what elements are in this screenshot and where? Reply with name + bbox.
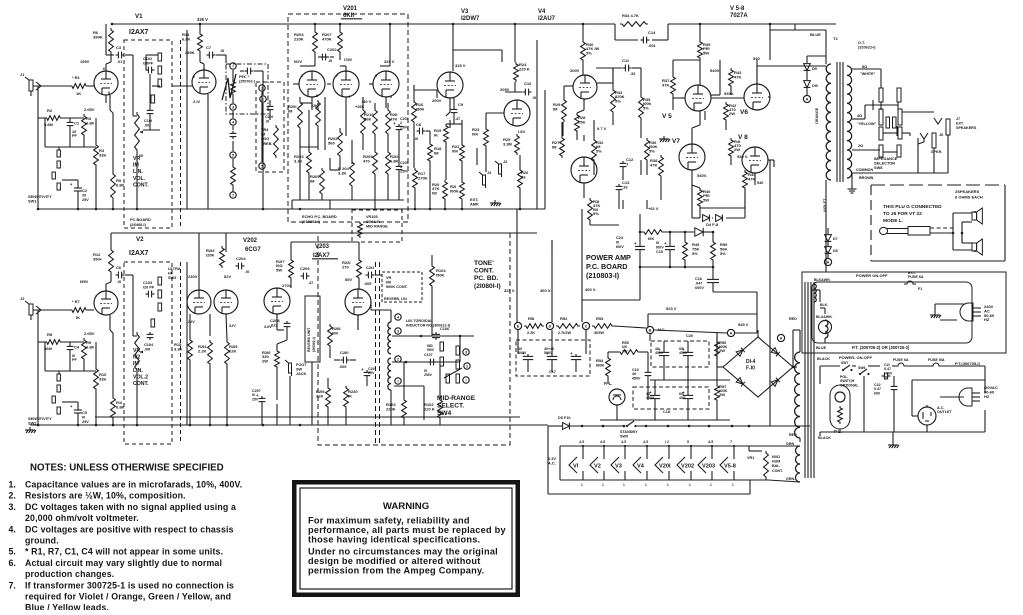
resistor R5: [111, 172, 125, 200]
svg-text:2: 2: [261, 87, 263, 91]
svg-text:5W: 5W: [703, 50, 709, 55]
svg-text:I: I: [397, 380, 398, 384]
svg-text:C14: C14: [648, 30, 656, 35]
jack J2: [25, 301, 41, 320]
label SW7: [841, 361, 848, 365]
wire PEC col: [233, 70, 263, 209]
svg-text:C2I2: C2I2: [366, 265, 375, 270]
svg-text:POWER- ON-OFF: POWER- ON-OFF: [839, 355, 872, 360]
svg-text:C18: C18: [663, 410, 670, 414]
label R55: [622, 341, 629, 353]
heater V2: [590, 445, 605, 480]
svg-text:IK: IK: [76, 315, 80, 320]
speaker bottom: [972, 239, 982, 255]
svg-text:V203: V203: [702, 464, 715, 470]
svg-text:VI: VI: [573, 464, 579, 470]
svg-text:3.: 3.: [9, 502, 16, 512]
wire extras v3: [414, 85, 486, 127]
label FUSE 10A: [928, 358, 945, 362]
svg-text:56K: 56K: [364, 117, 371, 122]
svg-text:+: +: [393, 121, 396, 126]
triode V201b: [333, 71, 359, 97]
svg-text:205V: 205V: [500, 87, 510, 92]
svg-text:1: 1: [602, 483, 604, 487]
capacitor PEC: [245, 68, 254, 75]
wire C1: [69, 118, 71, 147]
label L101: [406, 319, 451, 328]
resistor R37: [662, 75, 675, 96]
resistor R43: [729, 68, 743, 88]
label R2 value: [44, 122, 54, 127]
resistor R32: [592, 138, 605, 162]
label POL SWITCH: [840, 375, 859, 387]
wire 240 plug: [935, 304, 965, 320]
svg-text:3: 3: [465, 351, 467, 355]
label C4 value2: [72, 358, 78, 362]
capacitor C19: [645, 370, 652, 378]
wire extras echo: [292, 66, 386, 209]
label C5: [82, 411, 89, 424]
svg-text:530V.: 530V.: [724, 91, 734, 96]
wire echo bottom: [292, 199, 404, 201]
svg-text:4-5: 4-5: [579, 440, 584, 444]
diode D10: [804, 81, 811, 88]
svg-text:270: 270: [342, 265, 349, 270]
label 2.1V: [193, 99, 200, 104]
label 9.7V: [597, 126, 607, 131]
label MC: [658, 328, 666, 332]
svg-text:V201: V201: [343, 6, 358, 12]
svg-text:3: 3: [397, 330, 399, 334]
wire ot gnd: [826, 173, 852, 196]
svg-text:2W: 2W: [734, 147, 740, 152]
resistor R31: [588, 198, 601, 222]
svg-text:C9: C9: [458, 102, 464, 107]
label MID-RANGE: [437, 395, 476, 417]
label C17: [549, 370, 556, 374]
svg-text:25V: 25V: [82, 198, 89, 202]
svg-text:A: A: [730, 332, 733, 336]
svg-text:V2: V2: [136, 236, 144, 243]
label THIS PLUG: [883, 204, 942, 224]
label C16: [695, 277, 704, 290]
label 178V: [344, 57, 353, 62]
svg-text:230K: 230K: [185, 50, 195, 55]
svg-text:450': 450': [679, 396, 686, 400]
wire grid bias ch1: [45, 118, 96, 147]
svg-text:J7: J7: [956, 117, 960, 121]
node 4 mid: [395, 314, 401, 320]
svg-text:POWER AMP: POWER AMP: [586, 253, 631, 262]
svg-text:5: 5: [687, 440, 689, 444]
wire J1 to grid: [33, 85, 94, 87]
label GRN top: [786, 442, 795, 446]
svg-text:C2I0: C2I0: [340, 350, 349, 355]
label C21: [884, 363, 893, 375]
handwritten V1 mark: [222, 74, 236, 100]
svg-text:IK: IK: [434, 133, 438, 138]
svg-text:2W: 2W: [719, 392, 725, 397]
warning text: [308, 501, 507, 576]
svg-text:.001: .001: [648, 43, 657, 48]
label R7 value: [76, 315, 80, 320]
svg-text:D9: D9: [812, 67, 817, 71]
pin 3 node: [230, 104, 236, 110]
wire VR101: [133, 116, 137, 209]
switch pads C102: [151, 53, 162, 103]
svg-text:5%: 5%: [649, 148, 655, 153]
label 200V V3: [432, 98, 442, 103]
svg-text:.0I: .0I: [245, 270, 249, 274]
svg-text:20: 20: [82, 193, 86, 197]
svg-text:V 5-8: V 5-8: [730, 6, 745, 12]
svg-text:REVERB UNIT: REVERB UNIT: [307, 327, 311, 352]
label C6 value: [117, 280, 121, 284]
resistor R11: [111, 396, 125, 420]
ground ch2: [25, 427, 36, 433]
wire tap 8ohm: [852, 69, 881, 88]
label J7: [956, 117, 977, 130]
wire VR102: [133, 336, 137, 425]
resistor R213: [206, 246, 224, 268]
svg-text:3I/5W: 3I/5W: [594, 331, 604, 335]
label ULTRA HI: [168, 267, 181, 280]
svg-text:II5V: II5V: [345, 277, 352, 282]
svg-text:V4: V4: [637, 464, 645, 470]
svg-text:+: +: [664, 241, 667, 246]
svg-text:R34 4.7K: R34 4.7K: [622, 13, 639, 18]
svg-text:.0I: .0I: [220, 49, 224, 53]
capacitor C10: [523, 81, 533, 95]
svg-text:I95V: I95V: [80, 279, 89, 284]
wire V1b plate: [200, 53, 226, 70]
pot VR102: [135, 332, 140, 372]
wire left col ch1: [38, 86, 45, 209]
capacitor C6 ch2: [116, 265, 125, 278]
resistor R55 sym: [618, 350, 640, 355]
svg-text:permission from the Ampeg: permission from the Ampeg Company.: [308, 566, 484, 576]
svg-text:7: 7: [232, 194, 234, 198]
svg-text:P.T.(300705-I): P.T.(300705-I): [955, 361, 980, 366]
wire d9 col: [807, 56, 826, 95]
diode D3: [703, 215, 710, 222]
svg-text:R8: R8: [47, 332, 53, 337]
label C18b: [679, 392, 686, 400]
node 3 mid: [395, 328, 401, 334]
label BLK WH: [814, 278, 831, 282]
label SW6: [858, 366, 865, 370]
svg-text:5W: 5W: [276, 267, 282, 272]
svg-text:7027A: 7027A: [730, 13, 748, 19]
wire C5: [62, 402, 78, 425]
label C204 value: [245, 270, 249, 274]
label C1 value: [72, 130, 76, 134]
wire pa top: [640, 214, 713, 267]
label V7: [672, 138, 680, 145]
label BLK: [820, 303, 828, 307]
PT HV secondary: [795, 352, 800, 438]
svg-text:4: 4: [348, 95, 350, 99]
svg-text:2.7I/2W: 2.7I/2W: [558, 331, 571, 335]
label 523V: [666, 306, 677, 311]
resistor R54: [596, 356, 610, 378]
junction dots standby: [581, 425, 751, 428]
svg-text:500K CONT.: 500K CONT.: [386, 285, 408, 289]
svg-text:3.3K: 3.3K: [174, 347, 183, 352]
svg-text:LI0I TOROIDAL: LI0I TOROIDAL: [406, 319, 433, 323]
capacitor C106: [432, 332, 440, 340]
triode V203b: [345, 289, 371, 315]
triode V3b: [504, 100, 530, 126]
resistor R1: [70, 75, 88, 88]
label +62V: [648, 206, 659, 211]
label FUSE 6A: [893, 358, 909, 362]
svg-text:I50V: I50V: [427, 348, 435, 352]
wire L101 top: [358, 302, 391, 330]
svg-text:IM: IM: [434, 151, 439, 156]
diode D2: [771, 348, 780, 357]
wire midrange links: [391, 362, 440, 425]
svg-text:SW3: SW3: [168, 276, 176, 280]
pin5 echo: [316, 94, 318, 98]
label D7: [833, 237, 838, 241]
pentode V5: [685, 85, 711, 111]
triode V2a: [94, 291, 118, 315]
heater pin label V3: [621, 440, 626, 487]
svg-text:BLACK: BLACK: [817, 357, 830, 361]
svg-text:7: 7: [730, 440, 732, 444]
svg-text:SPEAKERS: SPEAKERS: [956, 126, 977, 130]
svg-text:400 V.: 400 V.: [585, 287, 596, 292]
svg-text:SW5: SW5: [620, 434, 628, 438]
dashed plug link: [930, 227, 953, 229]
svg-text:C4: C4: [74, 345, 80, 350]
resistor R221: [342, 258, 361, 280]
svg-text:C1: C1: [74, 121, 80, 126]
svg-text:BLK&WH.: BLK&WH.: [814, 278, 831, 282]
diode D4b: [716, 215, 723, 222]
label D5 F10: [558, 416, 570, 420]
label 540V b: [753, 56, 760, 61]
label 26K: [355, 105, 364, 109]
label VR102: [133, 348, 149, 387]
svg-text:COMMON: COMMON: [856, 168, 874, 172]
heater pin label V203: [708, 440, 713, 487]
wire bridge conns: [717, 330, 797, 367]
resistor R19: [434, 124, 448, 144]
svg-text:.00I: .00I: [144, 348, 150, 352]
label T2: [833, 36, 838, 41]
capacitor C211: [361, 367, 370, 378]
resistor R12: [93, 248, 113, 274]
svg-text:C204: C204: [236, 256, 246, 261]
wire output links: [673, 24, 774, 218]
capacitor C212: [366, 265, 376, 278]
svg-text:7: 7: [336, 74, 338, 78]
wire R6 to plate: [106, 54, 111, 71]
svg-text:FUSE I0A: FUSE I0A: [928, 358, 945, 362]
svg-text:33K: 33K: [99, 153, 106, 158]
svg-text:Under no circumstances may: Under no circumstances may the original: [308, 547, 498, 557]
wire c16: [713, 267, 757, 313]
pot VR101: [135, 112, 140, 152]
label V6: [740, 109, 748, 116]
svg-text:33: 33: [521, 175, 526, 180]
label 400V bus: [585, 287, 596, 292]
label PT num 240: [852, 345, 910, 350]
svg-text:1: 1: [689, 483, 691, 487]
wire v3 links: [414, 90, 486, 209]
svg-text:MODE L.: MODE L.: [883, 218, 903, 224]
svg-text:500V: 500V: [518, 351, 527, 355]
label STANDBY SW5: [620, 430, 638, 438]
svg-text:5: 5: [261, 165, 263, 169]
svg-text:325 V: 325 V: [197, 17, 208, 22]
resistor R29: [553, 98, 566, 122]
svg-text:T2: T2: [833, 36, 838, 41]
label 195V: [80, 59, 90, 64]
svg-text:D7: D7: [833, 237, 838, 241]
svg-text:V3: V3: [615, 464, 622, 470]
svg-text:I0K: I0K: [332, 331, 338, 336]
pin 6 V1a: [103, 67, 105, 71]
OT core: [837, 62, 843, 182]
ground ot: [848, 186, 857, 193]
svg-text:1: 1: [710, 483, 712, 487]
svg-text:523 V: 523 V: [666, 306, 677, 311]
heater VI: [569, 445, 584, 480]
svg-text:HI: HI: [168, 271, 172, 275]
switch SW7: [842, 365, 853, 371]
svg-text:TREB.: TREB.: [261, 142, 272, 146]
label 112V: [224, 274, 231, 279]
svg-text:I0I: I0I: [139, 154, 143, 158]
resistor pin col: [231, 165, 236, 187]
resistor R28: [575, 113, 587, 133]
svg-text:1K: 1K: [76, 91, 81, 96]
heater V20I: [655, 445, 671, 480]
label 12AX7 V203: [313, 253, 330, 259]
svg-text:C: C: [585, 325, 588, 329]
label C18a: [646, 392, 655, 400]
capacitor C20b: [682, 347, 693, 358]
label 192V: [294, 59, 303, 64]
svg-text:FOOT: FOOT: [296, 363, 307, 367]
svg-text:6.8K: 6.8K: [182, 37, 191, 42]
capacitor C107: [428, 359, 437, 366]
PC board echo dashed box: [288, 14, 408, 222]
svg-text:C6: C6: [116, 265, 122, 270]
svg-text:.0I: .0I: [532, 96, 536, 100]
wire extras right: [873, 100, 897, 136]
svg-text:2.2K: 2.2K: [198, 349, 207, 354]
wire v203 links: [277, 242, 432, 370]
junction dots ch2 bus: [37, 424, 302, 427]
capacitor C4: [67, 340, 80, 352]
svg-text:+: +: [634, 241, 637, 246]
resistor R209: [363, 150, 377, 176]
svg-text:7: 7: [95, 295, 97, 299]
label C7 value: [220, 49, 224, 53]
label POWER AMP: [586, 253, 631, 280]
svg-text:3: 3: [232, 106, 234, 110]
resistor R4: [94, 143, 107, 167]
triode V201a: [299, 71, 325, 97]
label 22K echo: [311, 104, 318, 108]
resistor R18: [428, 142, 443, 163]
triode V2b: [187, 290, 211, 314]
resistor R206: [328, 130, 342, 158]
svg-text:GRN.: GRN.: [786, 477, 795, 481]
svg-text:If transformer 300725-1 is use: If transformer 300725-1 is used no conne…: [25, 580, 234, 590]
wire ch2 second bus: [95, 416, 520, 418]
svg-text:(250762-): (250762-): [239, 80, 256, 84]
capacitor C17a: [522, 351, 533, 362]
label 2.1V ch2: [188, 320, 195, 324]
svg-text:I0K: I0K: [472, 132, 478, 137]
resistor PEC: [231, 80, 236, 96]
switch SW2 contacts: [52, 371, 60, 414]
svg-text:TONE': TONE': [474, 260, 494, 267]
label impedance selector: [874, 156, 898, 170]
label C20b: [679, 347, 688, 355]
wire R4 down: [95, 118, 97, 209]
resistor R204: [294, 30, 317, 54]
resistor R25: [503, 134, 519, 155]
wire b-node: [600, 333, 730, 420]
wire R15: [189, 314, 191, 425]
svg-text:.47: .47: [455, 117, 460, 121]
label 325V V3: [455, 63, 466, 68]
svg-text:F-I0: F-I0: [746, 365, 755, 371]
resistor 10K pa: [642, 230, 664, 241]
svg-text:2: 2: [397, 358, 399, 362]
VR105 dashed box: [352, 210, 402, 242]
triode V201c: [373, 71, 399, 97]
resistor R204b: [338, 160, 354, 188]
svg-text:5%: 5%: [586, 50, 592, 55]
svg-text:540: 540: [757, 181, 763, 185]
svg-text:C3: C3: [116, 45, 122, 50]
svg-text:C10: C10: [524, 81, 532, 86]
svg-text:AMP.: AMP.: [470, 202, 479, 207]
svg-text:22K: 22K: [316, 394, 323, 399]
ground V7 grid: [659, 136, 670, 142]
svg-text:C102: C102: [143, 57, 152, 61]
resistor R26: [518, 168, 530, 190]
svg-text:I92V: I92V: [294, 59, 303, 64]
svg-text:I2AX7: I2AX7: [313, 253, 330, 259]
switch SW6: [859, 369, 870, 375]
label BLUE t2: [810, 32, 821, 37]
label SPKR: [931, 150, 942, 154]
label C15: [656, 241, 664, 254]
svg-text:2W: 2W: [719, 348, 725, 353]
wire mid taps: [392, 336, 474, 420]
svg-text:450V: 450V: [632, 376, 641, 380]
fuse F1: [904, 281, 916, 284]
label J2: [20, 296, 25, 301]
capacitor C207: [256, 393, 265, 404]
wire R10 down: [95, 342, 97, 425]
resistor R41: [729, 138, 742, 158]
svg-text:560: 560: [328, 141, 335, 146]
svg-text:1: 1: [581, 483, 583, 487]
svg-text:C15: C15: [656, 250, 663, 254]
svg-text:470: 470: [363, 159, 370, 164]
svg-text:R53: R53: [596, 316, 604, 321]
capacitor C103b: [146, 291, 155, 298]
